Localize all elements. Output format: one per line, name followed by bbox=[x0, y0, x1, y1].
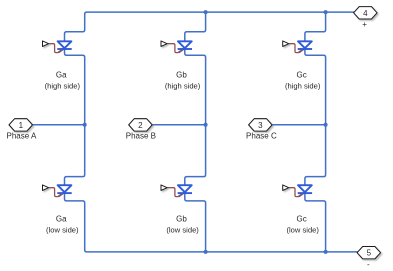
wire: top DC+ bus with phase-A high-side anode riser bbox=[65, 12, 357, 41]
output port 4 (+) bbox=[354, 7, 378, 19]
svg-text:5: 5 bbox=[367, 249, 372, 258]
wire: phase-C mid rail (high-side cathode to low-side anode) bbox=[305, 48, 326, 185]
gate input arrow Ga (high side) bbox=[43, 41, 49, 47]
wire: phase-C high-side anode riser to DC+ bus bbox=[305, 12, 326, 41]
gate wire Ga (low side) bbox=[49, 188, 63, 197]
thyristor Gb (high side) bbox=[178, 41, 192, 52]
junction: phase-C input bbox=[324, 123, 328, 127]
thyristor Gc (high side) bbox=[298, 41, 312, 52]
junction: top bus / phase-B riser bbox=[204, 10, 208, 14]
wire: phase-B low-side cathode drop to DC- bus bbox=[185, 192, 206, 252]
svg-text:3: 3 bbox=[258, 121, 263, 130]
gate input arrow Gc (high side) bbox=[283, 41, 289, 47]
junction: bottom bus / phase-B drop bbox=[204, 250, 208, 254]
svg-text:Phase B: Phase B bbox=[126, 132, 156, 141]
svg-text:Ga: Ga bbox=[56, 214, 67, 223]
thyristor Gb (low side) bbox=[178, 185, 192, 196]
gate wire Ga (high side) bbox=[49, 44, 63, 53]
thyristor Ga (low side) bbox=[57, 185, 71, 196]
wire: phase-B high-side anode riser to DC+ bus bbox=[185, 12, 206, 41]
svg-text:1: 1 bbox=[19, 121, 24, 130]
wire: phase-A mid rail (high-side cathode to low-side anode) bbox=[65, 48, 85, 185]
wire: Phase C input to mid-rail junction bbox=[272, 124, 325, 126]
gate wire Gb (low side) bbox=[167, 188, 183, 197]
wire: phase-B mid rail (high-side cathode to low-side anode) bbox=[185, 48, 206, 185]
svg-text:4: 4 bbox=[363, 9, 368, 18]
junction: phase-B input bbox=[204, 123, 208, 127]
svg-text:Phase A: Phase A bbox=[6, 132, 36, 141]
gate input arrow Gb (high side) bbox=[161, 41, 167, 47]
gate wire Gb (high side) bbox=[167, 44, 183, 53]
input port 3 Phase C bbox=[249, 119, 273, 131]
svg-text:(high side): (high side) bbox=[165, 82, 201, 91]
svg-text:-: - bbox=[367, 260, 370, 269]
svg-text:2: 2 bbox=[138, 121, 143, 130]
svg-text:Phase C: Phase C bbox=[246, 132, 277, 141]
wire: phase-C low-side cathode drop to DC- bus bbox=[305, 192, 326, 252]
wire: bottom DC- bus with phase-A low-side cathode drop bbox=[65, 192, 360, 252]
svg-text:(low side): (low side) bbox=[286, 226, 319, 235]
junction: phase-A input bbox=[83, 123, 87, 127]
junction: bottom bus / phase-C drop bbox=[324, 250, 328, 254]
svg-text:(low side): (low side) bbox=[46, 226, 79, 235]
svg-text:(high side): (high side) bbox=[285, 82, 321, 91]
gate input arrow Ga (low side) bbox=[43, 185, 49, 191]
svg-text:(low side): (low side) bbox=[166, 226, 199, 235]
svg-text:Gb: Gb bbox=[176, 70, 187, 79]
output port 5 (-) bbox=[357, 247, 381, 259]
gate input arrow Gb (low side) bbox=[161, 185, 167, 191]
thyristor Ga (high side) bbox=[57, 41, 71, 52]
thyristor Gc (low side) bbox=[298, 185, 312, 196]
gate input arrow Gc (low side) bbox=[283, 185, 289, 191]
svg-text:(high side): (high side) bbox=[45, 82, 81, 91]
junction: top bus / phase-C riser bbox=[324, 10, 328, 14]
wire: Phase B input to mid-rail junction bbox=[152, 124, 205, 126]
svg-text:Ga: Ga bbox=[56, 70, 67, 79]
gate wire Gc (high side) bbox=[289, 44, 303, 53]
gate wire Gc (low side) bbox=[289, 188, 303, 197]
wire: Phase A input to mid-rail junction bbox=[33, 124, 85, 126]
svg-text:Gb: Gb bbox=[176, 214, 187, 223]
input port 1 Phase A bbox=[9, 119, 33, 131]
svg-text:Gc: Gc bbox=[296, 70, 306, 79]
input port 2 Phase B bbox=[129, 119, 153, 131]
svg-text:+: + bbox=[362, 20, 367, 29]
svg-text:Gc: Gc bbox=[296, 214, 306, 223]
